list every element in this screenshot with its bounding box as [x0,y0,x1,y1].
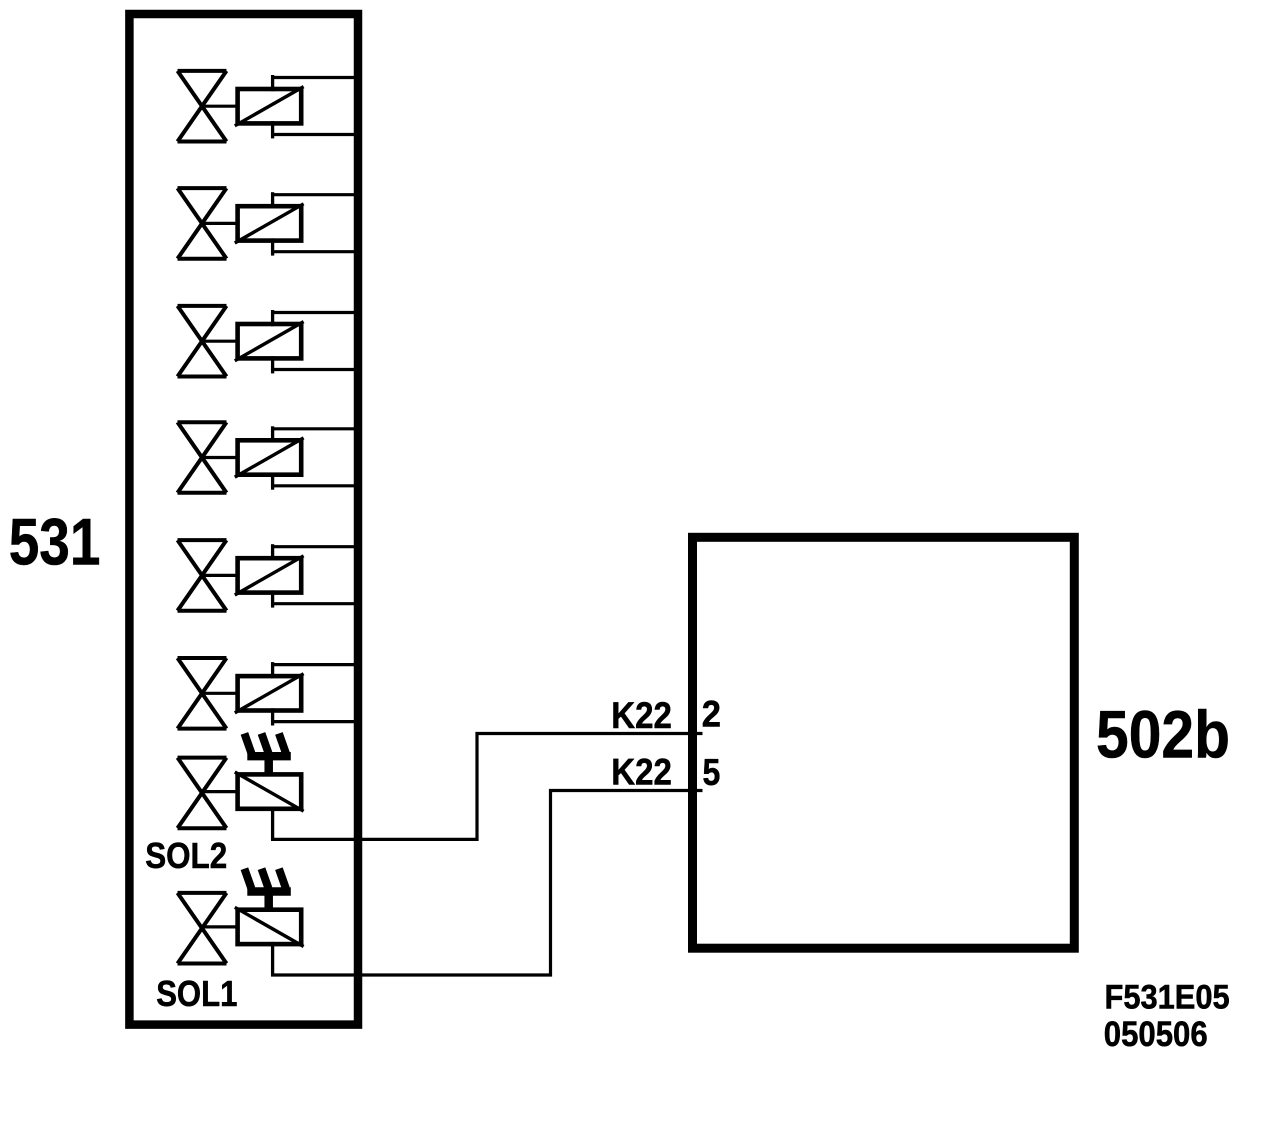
pin wire V3 coil bottom [271,356,274,373]
svg-text:F531E05: F531E05 [1105,979,1230,1017]
module 531 enclosure box [129,14,358,1025]
pin wire V2 coil top [271,192,274,208]
coil V4 diagonal [235,438,304,477]
control unit 502b box [693,537,1075,948]
variable-solenoid trident symbol SOL1 [244,869,290,909]
svg-text:5: 5 [703,751,721,793]
valve V1 bowtie symbol [178,71,227,142]
wire V2 top to bus [271,193,358,196]
svg-text:SOL2: SOL2 [145,835,227,876]
pin wire V6 coil bottom [271,708,274,725]
svg-text:K22: K22 [611,694,672,736]
pin wire V1 coil bottom [271,121,274,138]
wire V3 top to bus [271,311,358,314]
solenoid coil V2 [238,206,302,240]
solenoid coil V1 [238,89,302,123]
wire V2 bottom to bus [271,250,358,253]
pin wire V5 coil bottom [271,590,274,607]
pin wire V1 coil top [271,75,274,91]
svg-text:SOL1: SOL1 [156,973,237,1014]
pin wire V6 coil top [271,662,274,678]
wire V4 valve to coil [203,456,238,459]
pin wire V2 coil bottom [271,238,274,255]
coil V6 diagonal [235,674,304,713]
pin wire SOL1 coil bottom [271,942,274,975]
wire V4 bottom to bus [271,484,358,487]
coil SOL1 diagonal [235,907,304,946]
valve V6 bowtie symbol [178,658,227,729]
wire V4 top to bus [271,427,358,430]
wire V3 valve to coil [203,340,238,343]
wire net SOL1 to K22 pin 5 [271,791,703,976]
pin wire V5 coil top [271,544,274,560]
solenoid coil SOL1 [238,910,302,944]
solenoid coil SOL2 [238,774,302,808]
wire V6 top to bus [271,663,358,666]
valve SOL2 bowtie symbol [178,758,227,829]
variable-solenoid trident symbol SOL2 [244,733,290,773]
wire net SOL2 to K22 pin 2 [271,734,703,840]
pin wire V4 coil top [271,426,274,442]
solenoid coil V6 [238,676,302,710]
pin wire SOL2 coil bottom [271,807,274,840]
coil V5 diagonal [235,556,304,595]
wire V1 bottom to bus [271,133,358,136]
valve V5 bowtie symbol [178,540,227,611]
svg-text:531: 531 [9,506,101,580]
solenoid coil V3 [238,324,302,358]
coil V1 diagonal [235,87,304,126]
wire V1 top to bus [271,76,358,79]
valve SOL1 bowtie symbol [178,893,227,964]
wire SOL1 valve to coil [203,925,238,928]
svg-text:K22: K22 [611,751,672,793]
wire V5 bottom to bus [271,602,358,605]
solenoid coil V5 [238,558,302,592]
coil V3 diagonal [235,322,304,361]
coil V2 diagonal [235,204,304,243]
valve V3 bowtie symbol [178,306,227,377]
solenoid coil V4 [238,440,302,474]
wire V6 valve to coil [203,692,238,695]
wire V6 bottom to bus [271,720,358,723]
wire V5 valve to coil [203,574,238,577]
svg-text:2: 2 [702,693,721,735]
wire V3 bottom to bus [271,368,358,371]
coil SOL2 diagonal [235,772,304,811]
wire V2 valve to coil [203,222,238,225]
pin wire V4 coil bottom [271,473,274,490]
wire SOL2 valve to coil [203,790,238,793]
wire V1 valve to coil [203,105,238,108]
svg-text:502b: 502b [1096,698,1230,773]
valve V2 bowtie symbol [178,188,227,259]
svg-text:050506: 050506 [1104,1015,1208,1054]
pin wire V3 coil top [271,310,274,326]
wire V5 top to bus [271,545,358,548]
valve V4 bowtie symbol [178,422,227,493]
